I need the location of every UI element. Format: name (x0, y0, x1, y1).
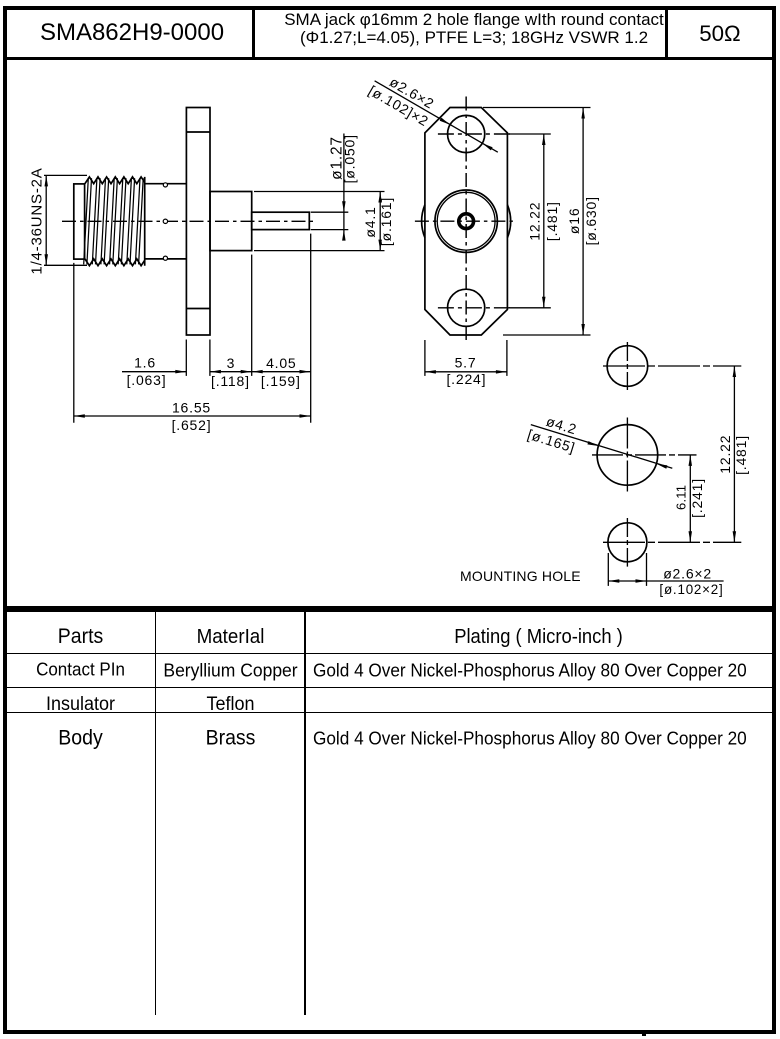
ext 12.22 top (509, 133, 551, 135)
ext pin bottom edge (311, 229, 349, 231)
ext flange right (209, 340, 211, 376)
svg-text:[.063]: [.063] (127, 372, 167, 388)
part number text (6, 9, 251, 56)
drawing/table divider (6, 606, 772, 612)
dim d16 arrows (581, 108, 585, 119)
svg-text:[.481]: [.481] (544, 201, 560, 241)
flange chamfer line top (186, 131, 210, 133)
svg-text:[.118]: [.118] (211, 373, 250, 389)
dim d2.6 arrows (608, 579, 619, 583)
detail bottom hole crosshair v (626, 518, 628, 567)
dim d4.1 arrows (378, 192, 382, 203)
body hole mid (163, 219, 167, 223)
dim 12.22det line (733, 366, 735, 542)
thread dim line (45, 175, 47, 265)
flange side view (186, 108, 210, 336)
dim 4.05 line (252, 371, 311, 373)
body bottom line (145, 258, 187, 260)
svg-text:6.11: 6.11 (674, 485, 689, 510)
svg-text:[ø.630]: [ø.630] (583, 196, 599, 245)
svg-text:16.55: 16.55 (172, 399, 211, 415)
ext d16 top (483, 107, 591, 109)
table header Parts (6, 610, 155, 653)
top mounting hole (448, 115, 485, 152)
svg-text:3: 3 (227, 355, 236, 371)
body hole top (163, 183, 167, 187)
svg-text:[.224]: [.224] (446, 371, 486, 387)
svg-text:[ø.161]: [ø.161] (378, 197, 394, 246)
svg-text:ø16: ø16 (566, 208, 582, 235)
ext cyl top edge (254, 191, 385, 193)
thread dim ext bottom (44, 264, 87, 266)
leader d2.6 line (375, 81, 498, 152)
dim 5.7 line (425, 371, 507, 373)
flange outline front view (425, 108, 508, 336)
thread end face (144, 177, 146, 266)
coupling nut rear cap (74, 184, 85, 259)
impedance text (668, 9, 772, 56)
detail top hole crosshair v (626, 342, 628, 390)
side view centerline (62, 220, 316, 222)
ext 5.7 right (506, 340, 508, 376)
dim 6.11 line (689, 455, 691, 542)
title block bottom line (6, 57, 772, 61)
front view horizontal centerline (415, 220, 517, 222)
detail top hole (607, 346, 648, 387)
ext 5.7 left (424, 340, 426, 376)
dim 16.55 arrows (74, 414, 85, 418)
insulator circle outer (435, 190, 497, 252)
front view vertical centerline (465, 97, 467, 344)
thread dim ext top (44, 174, 87, 176)
dim d4.1 line (379, 192, 381, 251)
ext flange left (185, 340, 187, 376)
contact pin side view (252, 212, 310, 229)
svg-text:ø2.6×2: ø2.6×2 (663, 565, 712, 581)
svg-text:ø4.1: ø4.1 (362, 206, 378, 237)
dim 3 line (210, 371, 252, 373)
detail top hole crosshair h (603, 365, 741, 367)
ext 12.22 bottom (509, 307, 551, 309)
svg-text:1/4-36UNS-2A: 1/4-36UNS-2A (28, 167, 45, 274)
ext d2.6 left (607, 553, 609, 586)
svg-text:MOUNTING HOLE: MOUNTING HOLE (460, 568, 581, 584)
detail bottom hole (608, 523, 647, 562)
ext d16 bottom (503, 334, 591, 336)
dim d1.27 arrows (342, 201, 346, 212)
leader d4.2 line (531, 425, 673, 469)
detail mid hole crosshair v (626, 418, 628, 493)
thread arc right (507, 205, 510, 238)
dim 5.7 arrows (425, 370, 436, 374)
table row line 1 (6, 653, 772, 655)
body hole bottom (163, 256, 167, 260)
thread crest top (85, 177, 145, 184)
dim 1.6 arrow (175, 370, 186, 374)
dim 1.6 line (122, 371, 186, 373)
dim 12.22 line (543, 134, 545, 308)
table column line 1 (155, 612, 156, 1015)
row Contact Pin (6, 652, 155, 689)
row Body (6, 710, 155, 767)
top hole centerline (438, 133, 512, 135)
ext left face (73, 263, 75, 423)
ext d2.6 right (646, 553, 648, 586)
row Insulator (6, 686, 155, 713)
center contact (459, 214, 474, 229)
detail mid hole crosshair h (592, 454, 697, 456)
svg-text:5.7: 5.7 (455, 354, 477, 370)
dim 6.11 arrows (689, 455, 693, 466)
dim 4.05 arrows (252, 370, 263, 374)
thread crest bottom (85, 259, 145, 266)
table row line 2 (6, 687, 772, 689)
svg-text:12.22: 12.22 (527, 202, 543, 241)
svg-text:[ø.050]: [ø.050] (342, 134, 358, 183)
table header Material (156, 610, 305, 653)
svg-text:4.05: 4.05 (266, 355, 296, 371)
detail bottom hole crosshair h (603, 541, 741, 543)
flange chamfer line bottom (186, 308, 210, 310)
thread dim arrows (45, 175, 49, 186)
bottom edge tick (642, 1030, 646, 1036)
table row line 3 (6, 712, 772, 714)
ext pin top edge (311, 211, 349, 213)
svg-text:[.241]: [.241] (689, 478, 705, 518)
leader d4.2 text (526, 409, 583, 456)
dim 16.55 line (74, 415, 311, 417)
detail mid hole (597, 425, 658, 486)
leader d2.6 arrows (440, 118, 450, 125)
thread hatching (84, 178, 144, 264)
svg-text:[.652]: [.652] (172, 417, 212, 433)
insulator circle inner (437, 192, 495, 250)
title block separator 1 (252, 10, 256, 57)
leader d4.2 arrows (587, 441, 598, 446)
svg-text:1.6: 1.6 (134, 355, 156, 371)
svg-text:[ø.102×2]: [ø.102×2] (659, 582, 723, 597)
ext pin tip (310, 234, 312, 423)
bottom mounting hole (448, 289, 485, 326)
dim d2.6 line (608, 580, 646, 582)
ext cyl bottom edge (254, 250, 385, 252)
table column line 2 (304, 612, 305, 1015)
bottom hole centerline (438, 307, 512, 309)
body top line (145, 183, 187, 185)
leader d2.6 text (366, 67, 441, 130)
rear cylinder (210, 192, 252, 251)
table header Plating (306, 610, 771, 653)
ext cylinder right (251, 255, 253, 376)
dim 12.22 arrows (542, 134, 546, 145)
dim d1.27 line (343, 134, 345, 241)
svg-text:[.159]: [.159] (261, 373, 301, 389)
thread arc left (422, 205, 425, 238)
dim d2.6 tail (647, 580, 724, 582)
title block separator 2 (665, 10, 668, 57)
dim 3 arrows (210, 370, 221, 374)
dim 12.22det arrows (733, 366, 737, 377)
description text (255, 11, 665, 47)
svg-text:12.22: 12.22 (717, 435, 733, 474)
svg-text:[.481]: [.481] (733, 435, 749, 475)
dim d16 line (582, 108, 584, 336)
